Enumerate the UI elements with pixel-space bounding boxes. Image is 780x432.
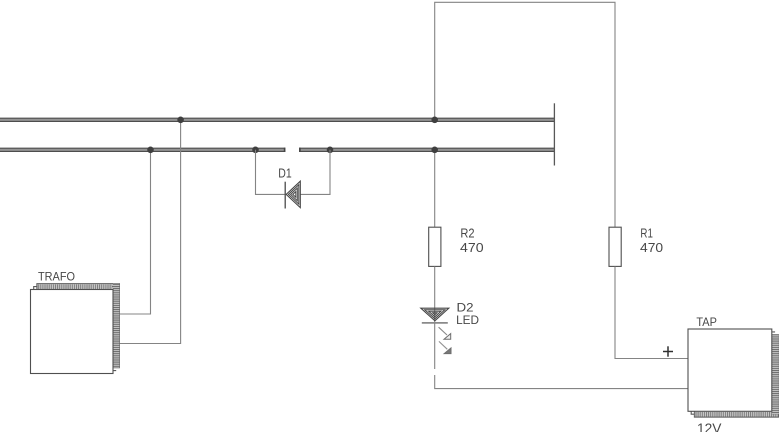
wire: trafo lower lead to top rail (119, 120, 180, 344)
wire: trafo upper lead to bottom rail (119, 150, 150, 314)
resistor R1 (609, 227, 621, 266)
node on top rail x180 (177, 117, 184, 124)
resistor R2 (429, 227, 441, 266)
LED D2 (421, 308, 449, 323)
svg-text:470: 470 (460, 240, 484, 255)
wire: D1 left lead (256, 150, 285, 195)
svg-text:LED: LED (456, 313, 479, 327)
bottom rail left segment (0, 148, 285, 152)
rail end bar (553, 103, 555, 165)
svg-text:12V: 12V (697, 421, 722, 432)
bottom rail right segment (299, 148, 554, 152)
wire: top loop from top rail to R1 (435, 2, 615, 227)
wire: R1 bottom to TAP plus lead (615, 266, 688, 358)
node on bottom rail x330 (327, 147, 334, 154)
power pack TAP (688, 329, 779, 417)
wire: D1 right lead (300, 150, 330, 195)
svg-text:R2: R2 (460, 225, 474, 240)
wire: bottom rail node down to R2 (434, 150, 436, 227)
LED arrow 2 (439, 341, 451, 353)
svg-text:R1: R1 (640, 225, 653, 240)
wire: R2 bottom to LED (434, 266, 436, 323)
svg-text:TRAFO: TRAFO (38, 272, 75, 284)
plus sign (663, 346, 673, 356)
wire: LED down (434, 323, 436, 369)
svg-text:470: 470 (640, 240, 663, 255)
node on bottom rail x434 (431, 147, 438, 154)
svg-text:TAP: TAP (696, 315, 717, 329)
wire: LED to TAP lower lead (435, 375, 688, 389)
svg-text:D1: D1 (278, 165, 291, 180)
transformer TRAFO (31, 284, 120, 374)
LED arrow 1 (439, 327, 451, 339)
node on top rail x434 (431, 117, 438, 124)
diode D1 (285, 181, 300, 208)
top rail (0, 118, 554, 122)
node on bottom rail x255 (252, 147, 259, 154)
node on bottom rail x150 (147, 147, 154, 154)
